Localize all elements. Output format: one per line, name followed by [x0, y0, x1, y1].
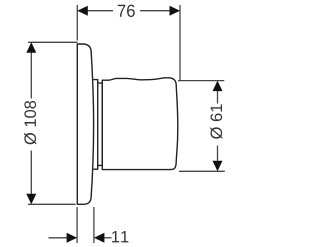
dim 11: label: [112, 231, 128, 242]
dim Ø61: down arrowhead: [213, 161, 223, 172]
dim Ø61: dimension line upper segment: [217, 91, 219, 104]
dim Ø61: label: [210, 104, 222, 138]
dim 11: left-pointing arrowhead: [94, 233, 105, 243]
dim 76: dimension line right segment: [140, 10, 170, 12]
dim 76: label: [118, 5, 135, 17]
handle body: [102, 78, 178, 170]
dim 76: left arrowhead: [77, 6, 88, 16]
dim Ø108: dimension line upper segment: [30, 52, 32, 99]
dim Ø108: down arrowhead: [26, 194, 36, 205]
dim 76: right arrowhead: [170, 6, 181, 16]
dim Ø61: bottom extension line: [179, 170, 225, 172]
dim 76: dimension line left segment: [87, 10, 113, 12]
dim Ø61: top extension line: [178, 80, 224, 82]
dim 76: left extension line: [76, 5, 78, 41]
dim Ø108: bottom extension line: [28, 203, 76, 205]
dim 11: right leader line: [104, 237, 112, 239]
dim Ø108: label: [24, 101, 36, 145]
sleeve ring B: [98, 83, 103, 165]
dim 11: left extension line: [76, 207, 78, 243]
dim Ø61: up arrowhead: [213, 81, 223, 92]
dim Ø108: dimension line lower segment: [30, 151, 32, 196]
escutcheon plate (side view, domed face): [77, 44, 93, 204]
sleeve ring A: [93, 80, 97, 170]
dim Ø108: top extension line: [28, 41, 78, 43]
dim 76: right extension line: [179, 5, 181, 80]
dim Ø61: dimension line lower segment: [217, 146, 219, 161]
dim 11: right extension line: [93, 207, 95, 243]
dim 11: left leader line: [49, 237, 68, 239]
dim Ø108: up arrowhead: [26, 42, 36, 53]
dim 11: right-pointing arrowhead: [67, 233, 78, 243]
